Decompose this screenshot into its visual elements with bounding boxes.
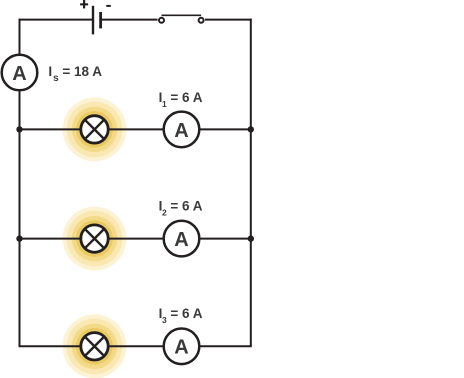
lamp L1 glow [63,97,127,161]
wire branch 3 horizontal (bottom) [19,345,252,347]
svg-text:A: A [12,63,26,85]
ammeter AS circle [2,55,38,91]
label I1 = 6 A [159,90,203,109]
svg-text:= 6 A: = 6 A [170,306,202,321]
svg-text:1: 1 [162,99,167,109]
label I3 = 6 A [159,306,203,325]
battery B1 positive plate [92,6,94,35]
wire left vertical [19,19,21,347]
svg-text:A: A [174,229,188,251]
lamp L3 [81,333,108,360]
battery plus label [80,0,88,8]
ammeter A1 circle [164,112,200,148]
svg-text:= 6 A: = 6 A [170,198,202,213]
lamp L2 glow [63,207,127,271]
wire top horizontal right segment [205,19,252,21]
node right branch 1 [248,126,254,132]
lamp L3 glow [63,314,127,378]
wire branch 2 horizontal [20,238,251,240]
ammeter A3 circle [164,329,200,365]
label Is = 18 A [48,64,102,84]
svg-text:3: 3 [162,315,167,325]
svg-text:2: 2 [162,207,167,217]
svg-text:A: A [174,337,188,359]
switch S1 blade [162,14,202,16]
battery B1 negative plate [99,12,102,28]
node right branch 2 [248,235,254,241]
node left branch 2 [16,235,22,241]
wire top horizontal left segment [19,19,93,21]
label I2 = 6 A [159,198,203,217]
node left branch 1 [16,126,22,132]
battery minus label [106,5,111,7]
lamp L1 [81,116,108,143]
wire branch 1 horizontal [20,128,251,130]
wire top horizontal middle segment [102,19,158,21]
switch S1 right contact [199,18,204,23]
svg-text:= 18 A: = 18 A [62,64,102,79]
wire right vertical [250,19,252,347]
svg-text:= 6 A: = 6 A [170,90,202,105]
svg-text:s: s [53,73,59,84]
svg-text:I: I [48,64,52,79]
switch S1 left contact [159,18,164,23]
lamp L2 [81,225,108,252]
ammeter A2 circle [164,221,200,257]
svg-text:A: A [174,120,188,142]
